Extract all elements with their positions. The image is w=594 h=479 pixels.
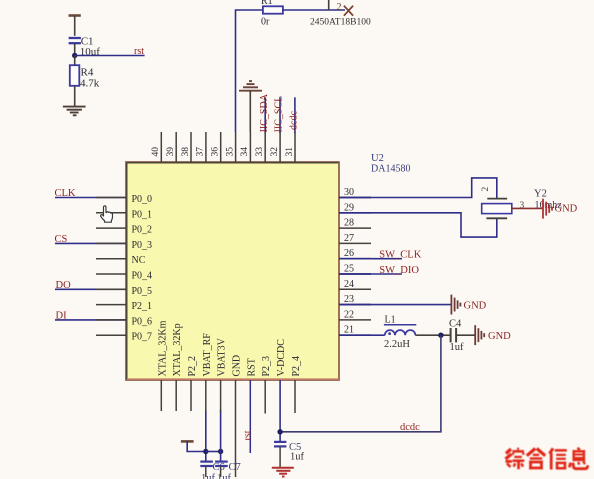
- IC U2 DA14580 body: [126, 162, 339, 380]
- svg-text:dcdc: dcdc: [400, 422, 420, 433]
- svg-text:P0_1: P0_1: [132, 209, 153, 220]
- wire SW_DIO: [339, 273, 402, 275]
- wire IIC_SDA: [264, 97, 266, 133]
- node rst junction: [72, 53, 77, 58]
- pin P0_5 (left): [55, 286, 152, 297]
- svg-text:4.7k: 4.7k: [80, 78, 100, 90]
- svg-text:Y2: Y2: [534, 189, 547, 200]
- power bar: [69, 16, 81, 36]
- pin 23 (right): [339, 294, 371, 305]
- capacitor C7 1uf: [215, 462, 241, 479]
- pin 38 (top): [181, 132, 191, 162]
- svg-text:2450AT18B100: 2450AT18B100: [310, 18, 371, 28]
- power bar 32K section: [181, 441, 206, 451]
- wire R1 to antenna: [283, 9, 345, 11]
- resistor R1 0r: [261, 0, 283, 27]
- svg-text:C4: C4: [449, 319, 462, 330]
- svg-text:31: 31: [285, 147, 295, 157]
- pin P0_3 (left): [55, 240, 152, 251]
- svg-text:P0_2: P0_2: [132, 225, 153, 236]
- svg-text:33: 33: [255, 147, 265, 157]
- pin V-DCDC (bottom): [276, 339, 287, 377]
- pin 30 (right): [339, 187, 371, 198]
- svg-text:NC: NC: [132, 255, 146, 266]
- wire dcdc top: [294, 97, 296, 133]
- capacitor C5 1uf: [274, 442, 305, 467]
- pin XTAL_32Kp (bottom): [172, 323, 183, 411]
- wire IIC_SCL: [279, 97, 281, 133]
- svg-text:2: 2: [337, 2, 342, 13]
- svg-text:2: 2: [481, 187, 491, 192]
- svg-text:XTAL_32Kp: XTAL_32Kp: [172, 323, 183, 376]
- svg-text:P0_6: P0_6: [132, 316, 153, 327]
- cursor hand icon: [101, 206, 113, 222]
- pin P2_3 (bottom): [261, 356, 272, 414]
- wire SW_CLK: [339, 258, 402, 260]
- svg-text:DI: DI: [56, 310, 68, 321]
- node V-DCDC junction: [277, 429, 282, 434]
- antenna lead: [328, 0, 330, 10]
- wire pin29 to crystal: [339, 213, 497, 237]
- svg-text:24: 24: [344, 279, 354, 290]
- svg-text:2.2uH: 2.2uH: [384, 339, 410, 350]
- svg-text:P2_2: P2_2: [187, 356, 198, 377]
- pin P0_2 (left): [96, 225, 152, 236]
- node VBAT_RF junction: [203, 449, 208, 454]
- svg-text:32: 32: [270, 147, 280, 157]
- svg-text:rst: rst: [242, 430, 253, 440]
- svg-text:29: 29: [344, 202, 354, 213]
- pin 33 (top): [255, 132, 265, 162]
- svg-text:3: 3: [520, 201, 525, 211]
- svg-text:CLK: CLK: [55, 188, 76, 199]
- svg-text:RST: RST: [246, 358, 257, 376]
- svg-text:SW_CLK: SW_CLK: [379, 250, 421, 261]
- pin P0_4 (left): [96, 271, 152, 282]
- svg-text:IIC_SCL: IIC_SCL: [274, 96, 285, 133]
- pin P2_4 (bottom): [291, 356, 302, 413]
- wire VBAT_RF down: [205, 410, 207, 462]
- pin 21 (right): [339, 325, 371, 336]
- svg-text:dcdc: dcdc: [289, 111, 300, 130]
- pin 31 (top): [285, 132, 295, 162]
- svg-text:P0_3: P0_3: [132, 240, 153, 251]
- pin NC (left): [96, 255, 146, 266]
- pin 29 (right): [339, 202, 371, 213]
- svg-text:25: 25: [344, 264, 354, 275]
- pin VBAT_RF (bottom): [202, 333, 213, 377]
- pin P2_1 (left): [96, 301, 152, 312]
- capacitor C4 1uf: [449, 319, 464, 353]
- svg-text:28: 28: [344, 218, 354, 229]
- pin XTAL_32Km (bottom): [157, 320, 168, 411]
- pin 26 (right): [339, 248, 371, 259]
- svg-text:35: 35: [225, 147, 235, 157]
- svg-text:GND: GND: [488, 331, 511, 342]
- wire VBAT3V down: [220, 410, 222, 462]
- pin 25 (right): [339, 264, 371, 275]
- svg-text:40: 40: [151, 147, 161, 157]
- wire C4 to GND: [456, 334, 475, 336]
- wire rst net: [75, 55, 145, 57]
- wire pin23 to GND: [339, 304, 451, 306]
- svg-text:U2: U2: [371, 153, 384, 164]
- svg-text:P0_0: P0_0: [132, 194, 153, 205]
- wire pin30 to crystal: [339, 178, 497, 199]
- GND power port at crystal: [543, 199, 552, 219]
- pin 28 (right): [339, 218, 371, 229]
- svg-text:GND: GND: [464, 301, 487, 312]
- pin 24 (right): [339, 279, 371, 290]
- pin P0_7 (left): [96, 332, 152, 343]
- svg-text:DO: DO: [56, 280, 72, 291]
- svg-text:DA14580: DA14580: [371, 164, 410, 175]
- svg-text:23: 23: [344, 294, 354, 305]
- pin 32 (top): [270, 132, 280, 162]
- svg-text:V-DCDC: V-DCDC: [276, 339, 287, 377]
- node dcdc junction: [438, 333, 443, 338]
- svg-text:0r: 0r: [261, 17, 270, 28]
- svg-text:P0_4: P0_4: [132, 271, 153, 282]
- ground under R4: [63, 107, 86, 116]
- svg-text:IIC_SDA: IIC_SDA: [259, 93, 270, 132]
- svg-text:GND: GND: [232, 355, 243, 377]
- wire L1 to C4: [415, 334, 450, 336]
- pin P2_2 (bottom): [187, 356, 198, 411]
- svg-text:39: 39: [166, 147, 176, 157]
- pin 34 (top): [240, 132, 250, 162]
- svg-text:C6: C6: [213, 462, 225, 473]
- svg-text:SW_DIO: SW_DIO: [379, 265, 419, 276]
- wire V-DCDC down: [279, 380, 281, 442]
- svg-text:CS: CS: [55, 234, 68, 245]
- wire crystal pin3 to GND: [512, 207, 543, 209]
- crystal Y2 16mhz: [481, 187, 525, 219]
- capacitor C6 1uf: [200, 462, 224, 479]
- svg-text:P0_7: P0_7: [132, 332, 153, 343]
- pin 35 (top): [225, 132, 235, 162]
- pin 39 (top): [166, 132, 176, 162]
- capacitor C1 10uf: [69, 36, 101, 59]
- svg-text:38: 38: [181, 147, 191, 157]
- svg-text:VBAT_RF: VBAT_RF: [202, 333, 213, 377]
- svg-text:P2_1: P2_1: [132, 301, 153, 312]
- pin 22 (right): [339, 309, 371, 320]
- pin GND (bottom): [232, 355, 243, 377]
- ground under C5 (red): [272, 468, 294, 477]
- svg-text:1uf: 1uf: [201, 473, 216, 479]
- caption 综合信息: [506, 448, 588, 470]
- wire RST down: [249, 380, 251, 453]
- pin P0_0 (left): [55, 194, 152, 205]
- wire dcdc vertical + horizontal: [280, 335, 441, 432]
- svg-text:L1: L1: [385, 315, 396, 326]
- svg-text:27: 27: [344, 233, 354, 244]
- svg-text:P0_5: P0_5: [132, 286, 153, 297]
- pin P0_1 (left): [96, 209, 152, 220]
- svg-text:1uf: 1uf: [217, 473, 232, 479]
- svg-text:GND: GND: [555, 204, 578, 215]
- pin 40 (top): [151, 132, 161, 162]
- svg-text:rst: rst: [134, 46, 144, 57]
- wire junction to VBAT3V: [206, 451, 221, 453]
- no-ERC X mark: [344, 6, 353, 16]
- node VBAT3V junction: [218, 449, 223, 454]
- svg-text:1uf: 1uf: [450, 342, 465, 353]
- svg-text:30: 30: [344, 187, 354, 198]
- inductor L1 2.2uH: [384, 315, 416, 351]
- svg-text:26: 26: [344, 248, 354, 259]
- pin VBAT3V (bottom): [217, 337, 228, 376]
- resistor R4 4.7k: [70, 56, 100, 107]
- wire pin35 to R1: [236, 10, 263, 132]
- svg-text:XTAL_32Km: XTAL_32Km: [157, 320, 168, 376]
- pin P0_6 (left): [55, 316, 152, 327]
- svg-text:34: 34: [240, 147, 250, 157]
- GND power port at C4: [475, 325, 484, 345]
- svg-text:P2_3: P2_3: [261, 356, 272, 377]
- svg-text:1uf: 1uf: [290, 452, 305, 463]
- svg-text:R1: R1: [261, 0, 273, 7]
- svg-text:C7: C7: [229, 462, 241, 473]
- pin 36 (top): [211, 132, 221, 162]
- pin 27 (right): [339, 233, 371, 244]
- svg-text:VBAT3V: VBAT3V: [217, 337, 228, 376]
- pin RST (bottom): [246, 358, 257, 376]
- svg-text:37: 37: [196, 147, 206, 157]
- pin 37 (top): [196, 132, 206, 162]
- wire GND pin down: [235, 380, 237, 477]
- svg-text:36: 36: [211, 147, 221, 157]
- svg-text:21: 21: [344, 325, 354, 336]
- svg-text:P2_4: P2_4: [291, 356, 302, 377]
- svg-text:22: 22: [344, 309, 354, 320]
- GND power port at pin23: [451, 295, 460, 315]
- wire pin21 to L1: [339, 334, 385, 336]
- ground above pin 34: [239, 81, 262, 132]
